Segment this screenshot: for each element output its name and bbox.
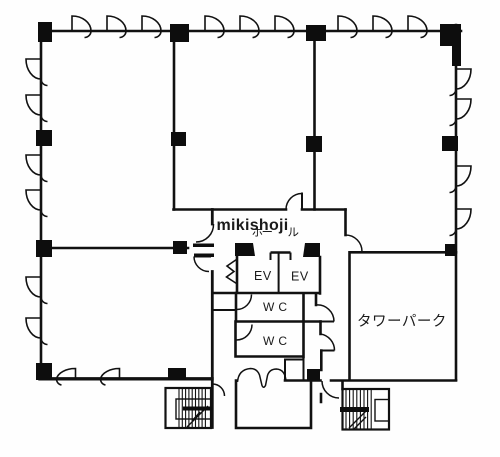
svg-text:EV: EV	[254, 269, 272, 283]
wall bottom-left exterior	[40, 377, 212, 380]
column left wall upper	[36, 130, 52, 146]
wall bottom center	[285, 379, 321, 382]
wall core left	[211, 210, 214, 428]
door arc WC2	[237, 325, 253, 341]
door arc corridor-stair	[322, 381, 339, 398]
door jamb passage lower bar	[194, 254, 214, 258]
column top mid-right	[306, 25, 326, 41]
svg-text:タワーパーク: タワーパーク	[357, 313, 447, 330]
wall WC1 box	[236, 293, 321, 322]
stairs right landing bar	[340, 407, 369, 412]
column top-right corner	[440, 24, 461, 66]
column divider wall	[173, 241, 187, 254]
door jamb passage upper bar	[193, 244, 214, 248]
wall right exterior	[455, 25, 458, 380]
column right wall upper	[442, 136, 458, 151]
svg-text:WC: WC	[263, 300, 291, 314]
wall interior x314	[313, 41, 316, 210]
stairs left	[166, 388, 212, 428]
wall top exterior	[40, 30, 461, 33]
wall interior x174	[173, 42, 176, 210]
door arc WC1	[237, 295, 252, 310]
wall EV box	[213, 256, 321, 305]
column left wall middle	[36, 240, 52, 257]
wall WC alcove	[213, 309, 236, 311]
door arc vestibule-stair left	[213, 384, 225, 396]
door arc tower-park	[346, 235, 363, 252]
column right wall tower-park	[445, 244, 457, 256]
window glyphs left wall	[26, 59, 48, 345]
door leaf WC lobby2	[321, 350, 335, 352]
column bottom-left corner	[36, 363, 52, 380]
wall bottom right exterior	[331, 379, 456, 382]
door arc passage upper	[196, 224, 214, 242]
column EV top-right	[303, 243, 320, 257]
door leaf hall top	[301, 194, 303, 210]
column corridor bottom	[307, 369, 320, 380]
door double-swing zigzag EV lobby	[227, 260, 237, 284]
door arc hall top	[286, 194, 302, 210]
window glyphs right wall	[450, 69, 472, 236]
window glyphs top wall	[72, 16, 427, 38]
door elevator symbol	[271, 251, 291, 253]
column top mid-left	[170, 24, 189, 42]
wall core right lower	[319, 322, 322, 403]
door tick passage lower	[194, 256, 211, 258]
wall stair connect	[341, 381, 344, 389]
stairs right	[343, 389, 390, 430]
door arc WC lobby1	[316, 305, 334, 322]
wall divider left rooms y248	[42, 247, 188, 250]
wall WC2 box	[236, 322, 304, 358]
svg-text:WC: WC	[263, 334, 291, 348]
column interior wall x314	[306, 136, 322, 152]
column top-left corner	[38, 22, 52, 42]
column EV top-left	[235, 243, 255, 256]
wall left exterior	[40, 30, 43, 379]
door leaf WC lobby1	[320, 321, 334, 323]
column interior wall x174	[171, 132, 186, 146]
stairs left landing bar	[183, 407, 212, 411]
wall hall right	[344, 210, 347, 236]
wall hall top	[174, 208, 346, 211]
column bottom wall	[168, 368, 186, 380]
door double entrance scallop	[238, 369, 287, 388]
duct box bottom	[285, 357, 304, 380]
window glyphs bottom wall	[56, 368, 119, 385]
wall EV divider	[278, 253, 280, 293]
door arc WC lobby2	[321, 334, 335, 351]
door arc passage lower	[194, 257, 209, 272]
wall vestibule	[236, 381, 311, 429]
svg-text:EV: EV	[291, 270, 309, 284]
wall tower-park room	[350, 252, 457, 380]
